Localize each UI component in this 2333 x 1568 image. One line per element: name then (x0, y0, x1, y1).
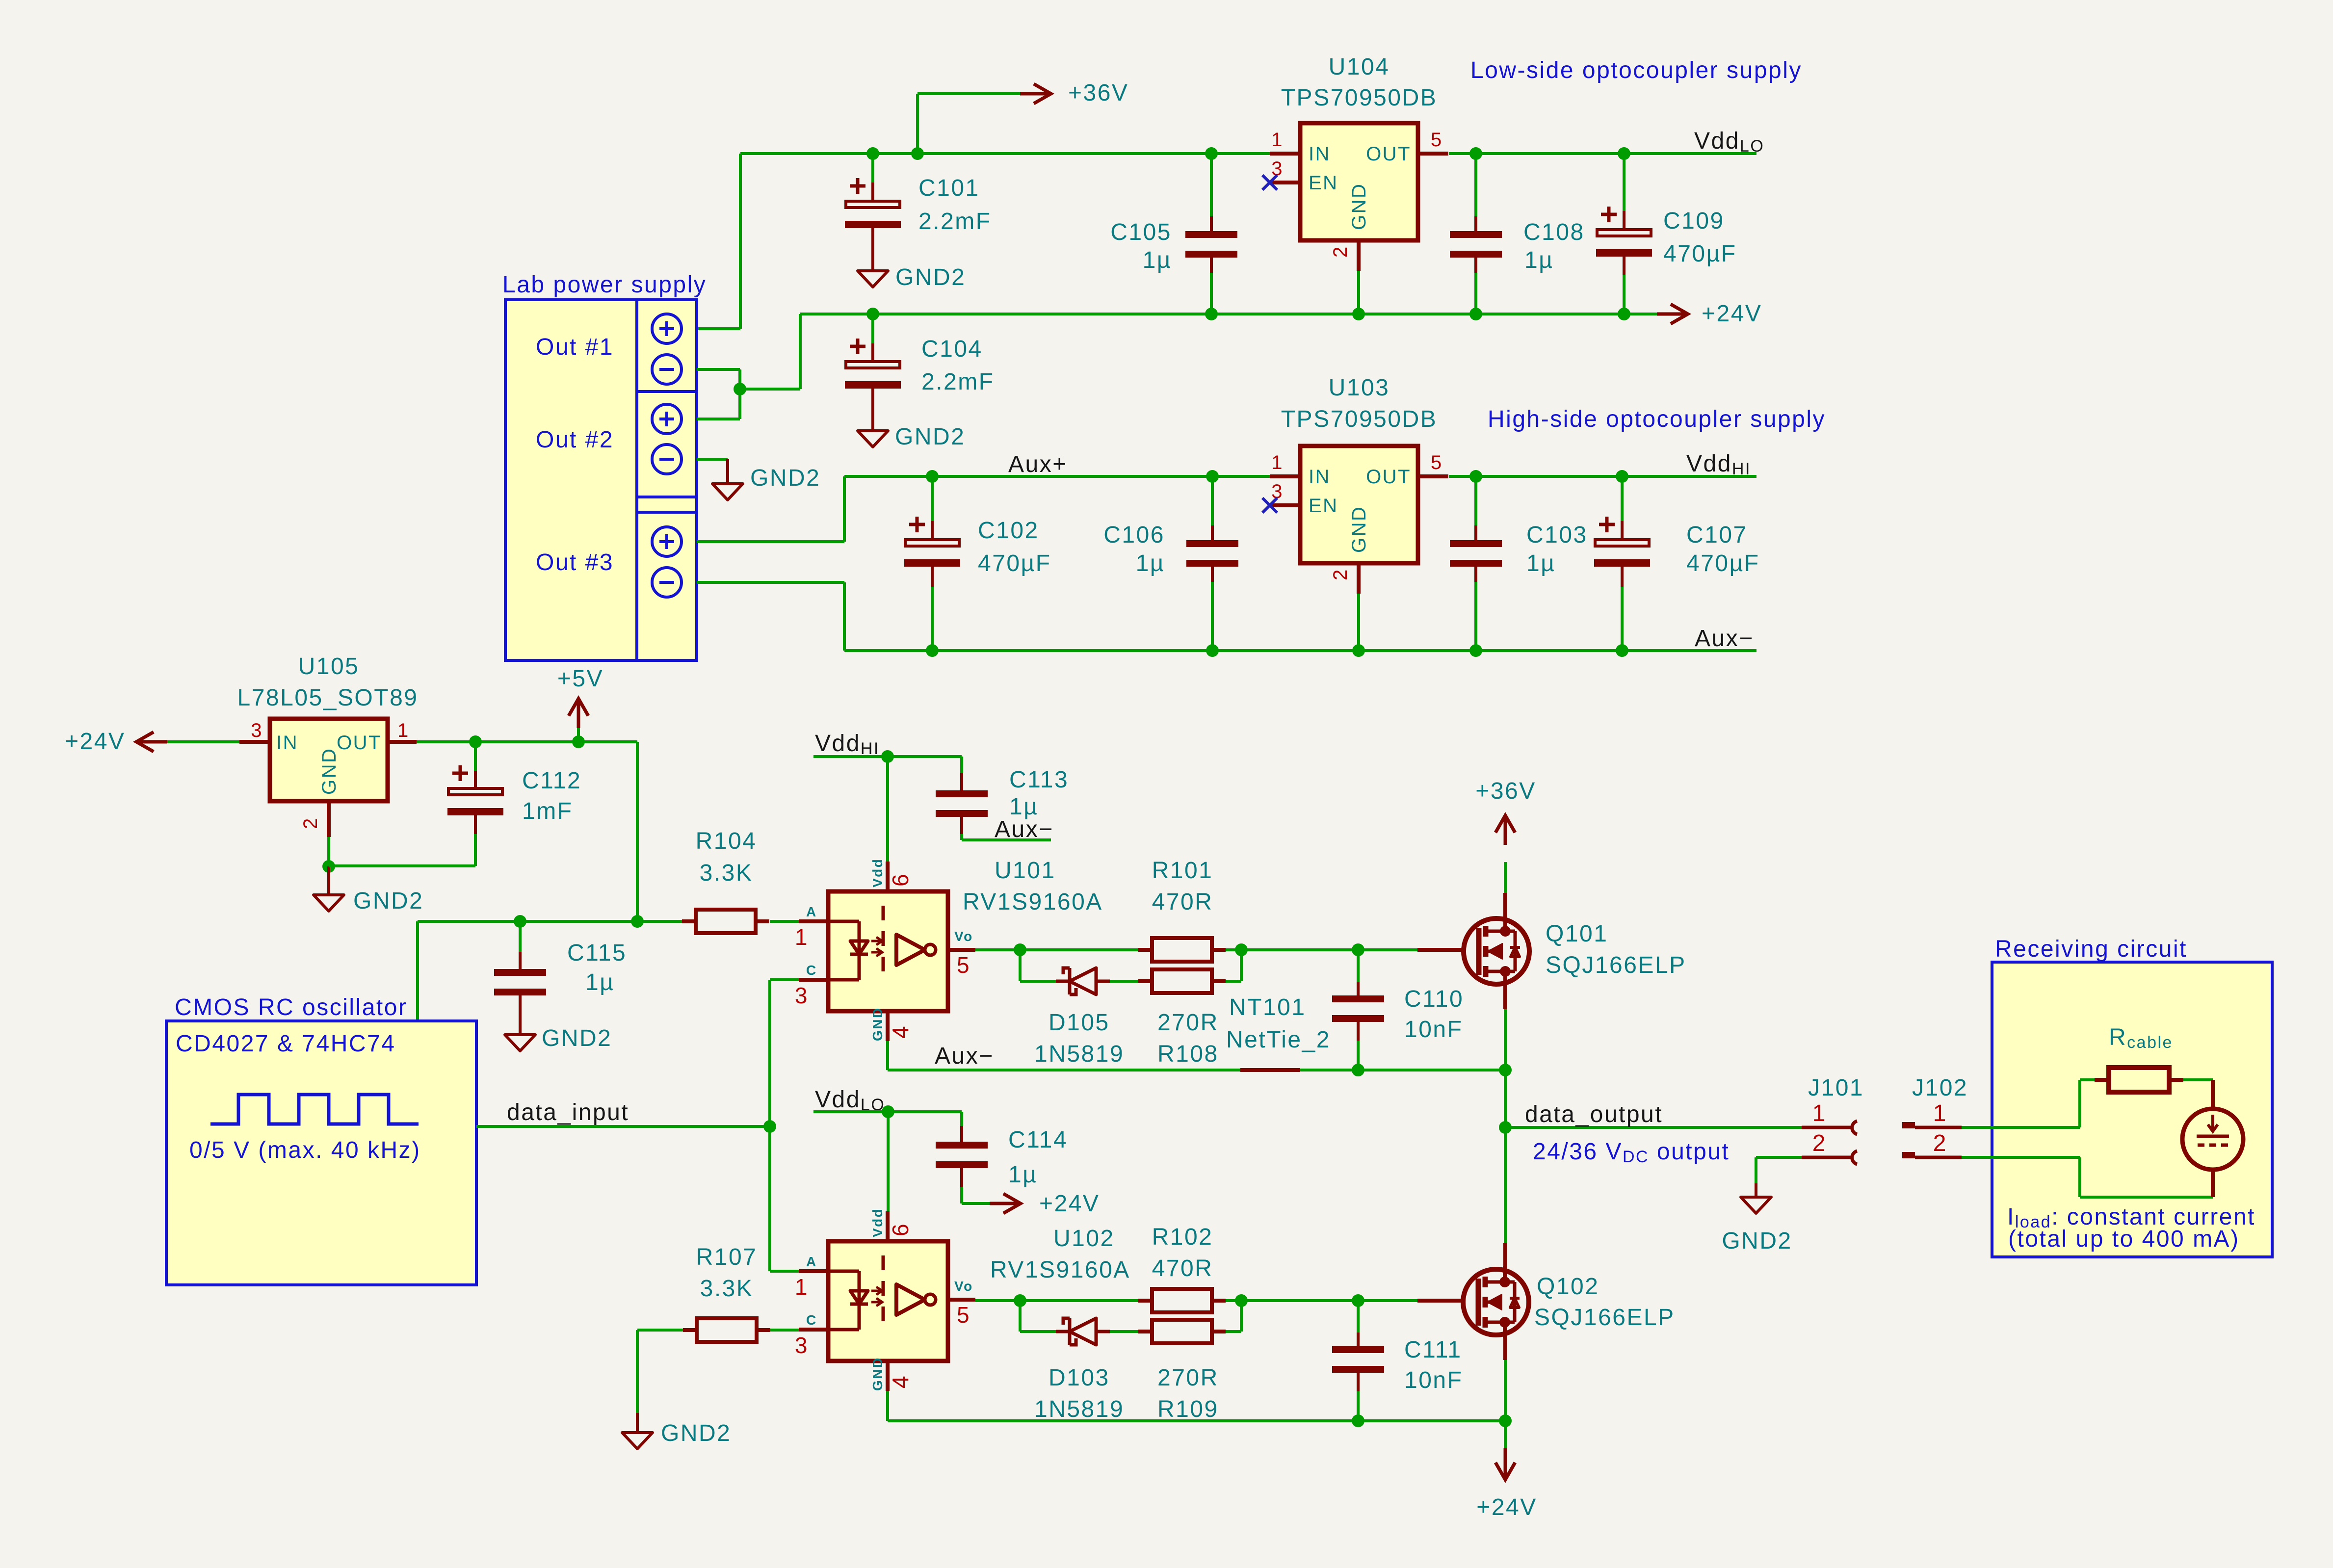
svg-text:D103: D103 (1049, 1365, 1110, 1391)
svg-text:4: 4 (888, 1025, 913, 1039)
svg-text:+36V: +36V (1068, 80, 1128, 106)
svg-text:C102: C102 (978, 518, 1039, 544)
ground GND2 at Out#2- (712, 484, 743, 500)
resistor R104 (696, 910, 756, 933)
svg-text:2.2mF: 2.2mF (918, 209, 992, 235)
svg-text:C106: C106 (1103, 522, 1165, 548)
junction U103 GND bottom (1352, 644, 1365, 657)
U102 output inverter (896, 1284, 925, 1315)
U101 pin 1 A (anode) (799, 919, 828, 923)
svg-text:C114: C114 (1008, 1127, 1068, 1153)
svg-text:R108: R108 (1157, 1041, 1219, 1067)
U103 pin 5 OUT (1418, 474, 1448, 478)
svg-text:2: 2 (1812, 1130, 1827, 1156)
junction C104 top (866, 308, 879, 320)
junction C109 bottom (1618, 308, 1630, 320)
U104 pin 1 IN (1270, 152, 1300, 156)
junction C102 bottom (926, 644, 939, 657)
Q101 body arrow (1486, 950, 1502, 953)
U105 pin 2 GND (327, 801, 331, 837)
svg-text:A: A (806, 904, 817, 919)
wire data_output to J101 (1505, 1126, 1802, 1129)
wire U104 GND to rail (1357, 271, 1360, 314)
junction C102 top (926, 470, 939, 483)
Q102 channel bar (1483, 1277, 1488, 1287)
svg-text:SQJ166ELP: SQJ166ELP (1534, 1305, 1675, 1331)
svg-text:GND2: GND2 (542, 1025, 612, 1051)
junction C111 bottom (1352, 1414, 1364, 1427)
svg-text:GND2: GND2 (750, 465, 820, 491)
Q101 gate bar (1476, 928, 1482, 975)
wire current source bottom (2211, 1170, 2215, 1197)
svg-text:C: C (806, 963, 817, 978)
ground GND2 below C115 (505, 1035, 535, 1051)
svg-text:GND: GND (1348, 183, 1370, 230)
junction C107 bottom (1616, 644, 1628, 657)
current source Iload (2182, 1109, 2243, 1170)
svg-text:Lab power supply: Lab power supply (502, 272, 707, 298)
svg-text:RV1S9160A: RV1S9160A (963, 889, 1103, 915)
svg-text:1: 1 (397, 720, 410, 741)
svg-text:Q102: Q102 (1537, 1274, 1599, 1300)
svg-text:U101: U101 (995, 858, 1056, 884)
ground GND2 below C101 (858, 271, 888, 287)
wire Q102 drain up to data_output (1504, 1127, 1507, 1243)
capacitor C108 (1474, 154, 1477, 216)
svg-text:C105: C105 (1110, 219, 1172, 245)
svg-text:GND2: GND2 (661, 1420, 731, 1446)
svg-text:C101: C101 (918, 175, 980, 201)
svg-text:2: 2 (1330, 568, 1351, 580)
capacitor C114 (960, 1112, 963, 1126)
Q102 drain/source internal risers (1503, 1266, 1507, 1282)
svg-text:2.2mF: 2.2mF (921, 369, 995, 395)
svg-text:R109: R109 (1157, 1396, 1219, 1422)
capacitor C113 (960, 757, 963, 773)
svg-text:Out #2: Out #2 (536, 427, 614, 453)
wire U105 OUT line (417, 740, 637, 743)
svg-text:OUT: OUT (1366, 466, 1411, 488)
regulator U104 TPS70950DB (1300, 123, 1418, 240)
svg-text:C110: C110 (1404, 986, 1464, 1012)
svg-text:Receiving circuit: Receiving circuit (1995, 936, 2187, 962)
svg-text:1µ: 1µ (1526, 550, 1555, 576)
svg-text:GND2: GND2 (1722, 1228, 1792, 1254)
wire U104 OUT to VddLO (1449, 152, 1756, 155)
junction Out1-/Out2+ tie (734, 383, 746, 395)
svg-text:470R: 470R (1152, 889, 1213, 915)
svg-text:TPS70950DB: TPS70950DB (1281, 406, 1438, 432)
svg-text:R102: R102 (1152, 1224, 1213, 1250)
wire +5V feed down to R104 line (636, 742, 639, 921)
svg-text:L78L05_SOT89: L78L05_SOT89 (237, 685, 419, 711)
svg-text:6: 6 (888, 1223, 913, 1236)
junction R104 feed (631, 915, 644, 928)
junction R102/R109 output (1235, 1294, 1248, 1307)
capacitor C111 (1357, 1301, 1360, 1333)
svg-text:5: 5 (957, 1302, 970, 1328)
svg-text:3: 3 (795, 1333, 809, 1358)
wire R102 to Q102 gate (1226, 1299, 1417, 1302)
svg-text:J102: J102 (1912, 1075, 1968, 1101)
svg-text:Q101: Q101 (1546, 921, 1608, 947)
capacitor C106 (1211, 476, 1214, 525)
capacitor C115 (519, 921, 522, 952)
svg-text:Vo: Vo (954, 929, 973, 944)
terminal Out#1 + (652, 314, 682, 343)
U101 pin 6 Vdd (886, 862, 890, 891)
U103 pin 1 IN (1270, 474, 1300, 478)
svg-text:EN: EN (1309, 172, 1338, 194)
terminal Out#1 - (652, 355, 682, 384)
junction U105 GND / C112 (322, 860, 335, 873)
wire R107 to GND2 (636, 1330, 639, 1413)
U103 pin 2 GND (1357, 563, 1361, 594)
net tie NT101 (1240, 1068, 1300, 1072)
Q101 drain contact (1486, 930, 1505, 933)
svg-text:J101: J101 (1808, 1075, 1864, 1101)
junction C108 top (1469, 147, 1482, 160)
wire C115/R104 horizontal (418, 920, 682, 923)
Q102 drain contact (1485, 1281, 1505, 1284)
ground GND2 below C104 (858, 431, 888, 447)
Q101 channel bar (1483, 926, 1489, 937)
svg-text:Out #3: Out #3 (536, 549, 614, 575)
svg-text:Aux−: Aux− (1695, 626, 1754, 652)
svg-text:GND: GND (1348, 506, 1370, 553)
U103 no-connect on EN (1262, 498, 1277, 513)
svg-text:3.3K: 3.3K (700, 860, 753, 886)
svg-text:1: 1 (1271, 129, 1284, 151)
svg-text:4: 4 (888, 1375, 913, 1388)
Q102 gate bar (1476, 1279, 1481, 1326)
svg-text:NetTie_2: NetTie_2 (1226, 1027, 1331, 1053)
U102 pin 5 Vo (948, 1298, 975, 1302)
svg-text:GND: GND (870, 1357, 885, 1391)
svg-text:C107: C107 (1686, 522, 1748, 548)
svg-text:+24V: +24V (1039, 1191, 1100, 1217)
svg-text:1µ: 1µ (1008, 1162, 1037, 1188)
terminal Out#2 + (652, 404, 682, 434)
resistor R101 (1152, 938, 1212, 962)
square wave symbol (210, 1095, 419, 1124)
wire top-left rail from Out#1+ up and right to U104 IN (697, 327, 740, 330)
svg-text:GND2: GND2 (895, 424, 965, 450)
wire Aux+ line (844, 475, 1270, 478)
svg-text:1: 1 (1933, 1100, 1947, 1126)
junction C103 top (1469, 470, 1482, 483)
svg-text:TPS70950DB: TPS70950DB (1281, 85, 1438, 111)
junction U102 Vdd (882, 1105, 894, 1118)
oscillator block box (166, 1021, 476, 1285)
J101 pin 1 (1802, 1126, 1851, 1129)
svg-text:1: 1 (1812, 1100, 1827, 1126)
Q101 drain/source internal risers (1503, 915, 1507, 931)
junction data_input split (763, 1120, 776, 1133)
svg-text:SQJ166ELP: SQJ166ELP (1546, 952, 1686, 978)
svg-text:EN: EN (1309, 495, 1338, 517)
wire U101 GND to Aux- rail (886, 1041, 889, 1070)
svg-text:C109: C109 (1663, 208, 1725, 234)
svg-text:470µF: 470µF (1663, 241, 1737, 267)
svg-text:3: 3 (251, 720, 263, 741)
svg-text:C111: C111 (1404, 1337, 1462, 1363)
svg-text:U104: U104 (1329, 54, 1390, 80)
wire D105 branch down (1019, 950, 1022, 981)
svg-text:GND: GND (870, 1007, 885, 1041)
svg-text:NT101: NT101 (1229, 994, 1306, 1020)
capacitor C107 (1621, 476, 1624, 521)
svg-text:GND: GND (318, 748, 340, 795)
wire data_input to U101 C (768, 980, 771, 1126)
wire U101 Vo output (975, 948, 1139, 951)
svg-text:1µ: 1µ (585, 969, 614, 995)
junction C106 bottom (1206, 644, 1219, 657)
svg-text:C113: C113 (1009, 767, 1069, 793)
junction U101 Vdd (881, 750, 894, 763)
svg-text:1: 1 (795, 1274, 809, 1300)
svg-text:C112: C112 (522, 768, 581, 794)
wire U101 Vdd drop (886, 757, 889, 862)
terminal Out#3 + (652, 527, 682, 556)
resistor R108 (1152, 969, 1212, 993)
svg-text:R104: R104 (696, 828, 757, 854)
U102 pin 4 GND (886, 1361, 890, 1391)
capacitor C105 (1210, 154, 1213, 216)
wire Q102 source down (1503, 1324, 1507, 1360)
junction C110 top (1352, 943, 1364, 956)
svg-text:2: 2 (1933, 1130, 1947, 1156)
U101 light arrows (871, 937, 882, 956)
Q102 body diode (1505, 1281, 1515, 1284)
svg-text:U102: U102 (1053, 1226, 1115, 1252)
svg-text:+24V: +24V (1702, 301, 1762, 327)
svg-text:Vdd: Vdd (870, 1208, 885, 1237)
svg-text:1: 1 (795, 924, 809, 950)
svg-text:GND2: GND2 (353, 888, 423, 914)
svg-text:2: 2 (1330, 245, 1351, 258)
terminal Out#3 - (652, 568, 682, 597)
svg-text:High-side optocoupler supply: High-side optocoupler supply (1488, 406, 1826, 432)
regulator U103 TPS70950DB (1300, 446, 1418, 563)
junction C103 bottom (1469, 644, 1482, 657)
junction C112 top (469, 735, 482, 748)
wire Q101 source down (1503, 973, 1507, 1009)
wire U103 GND to Aux- (1357, 594, 1360, 651)
junction Q101 source / Aux- rail (1499, 1064, 1512, 1076)
junction C108 bottom (1469, 308, 1482, 320)
wire Aux- line (844, 649, 1756, 652)
svg-text:R101: R101 (1152, 858, 1213, 884)
svg-text:+5V: +5V (557, 666, 603, 692)
junction U104 GND bottom (1352, 308, 1365, 320)
wire Out#1- to +24V net (697, 368, 740, 371)
svg-text:1: 1 (1271, 452, 1284, 473)
wire D103 branch down (1019, 1301, 1022, 1332)
svg-text:D105: D105 (1049, 1010, 1110, 1036)
diode D105 1N5819 (1056, 980, 1070, 983)
svg-text:OUT: OUT (337, 732, 382, 754)
capacitor C109 (1623, 154, 1625, 211)
svg-text:+24V: +24V (1476, 1494, 1537, 1520)
lab power supply terminal column (635, 300, 638, 660)
U102 light arrows (871, 1287, 882, 1306)
svg-text:Vdd: Vdd (870, 858, 885, 888)
svg-text:5: 5 (1431, 452, 1443, 473)
wire data_input (476, 1125, 770, 1128)
lab power supply outer box (505, 300, 697, 660)
J102 pin 1 (1902, 1122, 1915, 1128)
ground GND2 at J101 (1741, 1197, 1771, 1213)
J102 pin 2 (1902, 1152, 1915, 1158)
diode D103 1N5819 (1056, 1330, 1070, 1333)
power symbol +5V (577, 725, 580, 742)
wire oscillator output drop (416, 921, 419, 1021)
junction +5V branch (572, 735, 585, 748)
capacitor C110 (1357, 950, 1360, 982)
U101 output inverter (896, 935, 925, 965)
transistor Q101 SQJ166ELP (1503, 893, 1507, 929)
svg-text:470µF: 470µF (1686, 550, 1760, 576)
Q101 source contact (1486, 970, 1505, 973)
ground GND2 below R107 (622, 1433, 653, 1449)
U102 pin 1 A (anode) (799, 1269, 828, 1273)
svg-text:5: 5 (1431, 129, 1443, 151)
power symbol +24V at C114 (990, 1194, 1021, 1213)
junction C105 bottom (1205, 308, 1218, 320)
svg-text:1N5819: 1N5819 (1034, 1041, 1124, 1067)
svg-text:A: A (806, 1254, 817, 1269)
svg-text:1µ: 1µ (1143, 247, 1172, 273)
capacitor C104 (871, 314, 874, 343)
wire U102 Vdd drop (887, 1112, 890, 1212)
svg-text:Aux−: Aux− (995, 816, 1054, 842)
capacitor C112 (474, 742, 477, 771)
wire R101 to Q101 gate (1226, 948, 1417, 951)
wire Rcable to current source (2211, 1080, 2215, 1109)
Q101 body diode (1505, 930, 1515, 933)
wire U102 Vo output (975, 1299, 1139, 1302)
svg-text:Aux+: Aux+ (1008, 451, 1068, 477)
svg-text:U105: U105 (298, 653, 360, 679)
U104 pin 5 OUT (1418, 152, 1448, 156)
svg-text:2: 2 (300, 817, 321, 829)
junction C115 top (514, 915, 526, 928)
svg-text:1mF: 1mF (522, 798, 573, 824)
regulator U105 L78L05_SOT89 (239, 740, 270, 744)
svg-text:IN: IN (1309, 466, 1331, 488)
wire down to data_output (1504, 1070, 1507, 1127)
wire J101 pin2 to GND2 (1755, 1157, 1757, 1183)
svg-text:Low-side optocoupler supply: Low-side optocoupler supply (1470, 57, 1802, 83)
svg-text:270R: 270R (1157, 1010, 1219, 1036)
junction C101 top (866, 147, 879, 160)
U102 pin 3 C (cathode) (799, 1328, 828, 1332)
svg-text:(total up to 400 mA): (total up to 400 mA) (2008, 1226, 2240, 1252)
svg-text:10nF: 10nF (1404, 1367, 1463, 1393)
wire Out#2+ stub (697, 418, 740, 420)
svg-text:OUT: OUT (1366, 143, 1411, 165)
svg-text:R107: R107 (696, 1244, 758, 1270)
junction C107 top (1616, 470, 1628, 483)
resistor R109 (1152, 1320, 1212, 1343)
svg-text:CMOS RC oscillator: CMOS RC oscillator (175, 994, 407, 1020)
ground GND2 below U105 (327, 866, 330, 895)
svg-text:U103: U103 (1329, 375, 1390, 401)
wire Out#3- to Aux- (697, 581, 844, 584)
U102 internal LED (828, 1270, 859, 1273)
capacitor C102 (931, 476, 934, 521)
svg-text:+36V: +36V (1475, 778, 1536, 804)
svg-text:1µ: 1µ (1524, 247, 1553, 273)
U105 pin 1 OUT (388, 740, 417, 744)
svg-text:data_input: data_input (507, 1099, 629, 1125)
wire J102 pin1 into receiving circuit (1962, 1126, 2080, 1129)
wire Out#3+ to Aux+ (697, 540, 844, 543)
svg-text:Vo: Vo (954, 1279, 973, 1294)
svg-text:1N5819: 1N5819 (1034, 1396, 1124, 1422)
svg-text:6: 6 (888, 873, 913, 887)
U102 isolation barrier (882, 1255, 885, 1331)
svg-text:1µ: 1µ (1136, 550, 1165, 576)
resistor R102 (1152, 1289, 1212, 1312)
svg-text:0/5 V (max. 40 kHz): 0/5 V (max. 40 kHz) (189, 1137, 421, 1163)
svg-text:470R: 470R (1152, 1255, 1213, 1281)
svg-text:GND2: GND2 (895, 264, 966, 290)
svg-text:470µF: 470µF (978, 550, 1051, 576)
receiving circuit box (1992, 962, 2272, 1257)
wire Out#2- to GND2 (697, 458, 728, 461)
capacitor C103 (1474, 476, 1477, 525)
capacitor C101 (871, 154, 874, 183)
optocoupler U102 RV1S9160A (828, 1241, 948, 1361)
svg-text:270R: 270R (1157, 1365, 1219, 1391)
junction C105 top (1205, 147, 1218, 160)
transistor Q102 SQJ166ELP (1503, 1243, 1507, 1280)
U101 internal LED (828, 920, 859, 923)
wire +36V branch (916, 94, 919, 154)
Q102 body arrow (1485, 1301, 1502, 1304)
wire J102 pin2 into receiving circuit (1962, 1156, 2080, 1159)
resistor R107 (637, 1329, 683, 1332)
wire U103 OUT to VddHI (1449, 475, 1756, 478)
U101 pin 4 GND (886, 1011, 890, 1041)
U101 pin 3 C (cathode) (799, 978, 828, 982)
wire VddLO to C114/U102 (813, 1110, 962, 1113)
svg-text:10nF: 10nF (1404, 1017, 1463, 1043)
junction C110 bottom (1352, 1064, 1364, 1076)
U104 pin 2 GND (1357, 240, 1361, 271)
terminal Out#2 - (652, 444, 682, 474)
U104 pin 3 EN (1270, 181, 1300, 184)
power symbol +24V at bottom (1504, 1421, 1507, 1448)
svg-text:Out #1: Out #1 (536, 334, 614, 360)
U101 pin 5 Vo (948, 948, 975, 952)
junction C109 top (1618, 147, 1630, 160)
optocoupler U101 RV1S9160A (828, 891, 948, 1011)
svg-text:CD4027 & 74HC74: CD4027 & 74HC74 (176, 1031, 395, 1057)
U104 no-connect on EN (1262, 175, 1277, 190)
svg-text:IN: IN (276, 732, 298, 754)
wire +24V rail (top) (800, 313, 1663, 315)
svg-text:C104: C104 (921, 336, 983, 362)
svg-text:data_output: data_output (1525, 1101, 1663, 1127)
wire data_input to U102 A (768, 1126, 771, 1271)
junction Q102 source rail (1499, 1414, 1512, 1427)
junction +36V branch (911, 147, 924, 160)
junction C111 top (1352, 1294, 1364, 1307)
junction Vo2 / D103 branch (1014, 1294, 1026, 1307)
